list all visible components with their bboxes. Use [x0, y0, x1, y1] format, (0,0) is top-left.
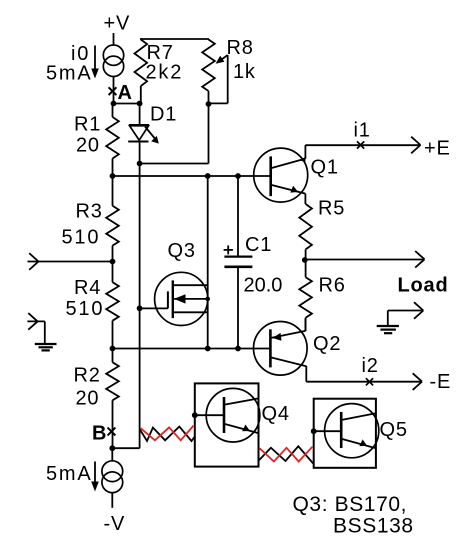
- svg-text:510: 510: [62, 227, 101, 249]
- svg-text:R6: R6: [319, 275, 346, 297]
- svg-text:510: 510: [66, 298, 105, 320]
- svg-text:A: A: [118, 82, 133, 104]
- svg-text:+E: +E: [424, 138, 451, 160]
- svg-text:Load: Load: [398, 275, 449, 297]
- svg-text:Q1: Q1: [311, 157, 339, 179]
- svg-text:D1: D1: [150, 104, 177, 126]
- svg-text:i1: i1: [354, 120, 371, 142]
- svg-text:-V: -V: [104, 513, 126, 535]
- svg-text:Q4: Q4: [262, 403, 290, 425]
- svg-text:C1: C1: [245, 234, 272, 256]
- svg-text:+V: +V: [104, 13, 131, 35]
- svg-text:20: 20: [76, 388, 100, 410]
- svg-text:20: 20: [76, 135, 100, 157]
- svg-text:Q3: Q3: [168, 240, 196, 262]
- svg-text:20.0: 20.0: [244, 275, 283, 297]
- svg-text:5mA: 5mA: [46, 63, 93, 85]
- svg-text:Q5: Q5: [380, 419, 408, 441]
- svg-text:-E: -E: [430, 371, 452, 393]
- svg-text:BSS138: BSS138: [333, 515, 414, 538]
- svg-text:i2: i2: [362, 355, 379, 377]
- svg-text:R2: R2: [74, 365, 101, 387]
- svg-text:5mA: 5mA: [46, 463, 93, 485]
- svg-text:Q3: BS170,: Q3: BS170,: [293, 493, 408, 516]
- svg-text:R5: R5: [318, 198, 345, 220]
- svg-text:R1: R1: [74, 114, 101, 136]
- svg-text:B: B: [92, 423, 107, 445]
- svg-text:R3: R3: [76, 201, 103, 223]
- svg-text:R8: R8: [227, 37, 254, 59]
- svg-text:2k2: 2k2: [146, 62, 184, 84]
- svg-text:1k: 1k: [233, 61, 256, 83]
- svg-text:Q2: Q2: [313, 333, 341, 355]
- svg-text:R4: R4: [74, 277, 101, 299]
